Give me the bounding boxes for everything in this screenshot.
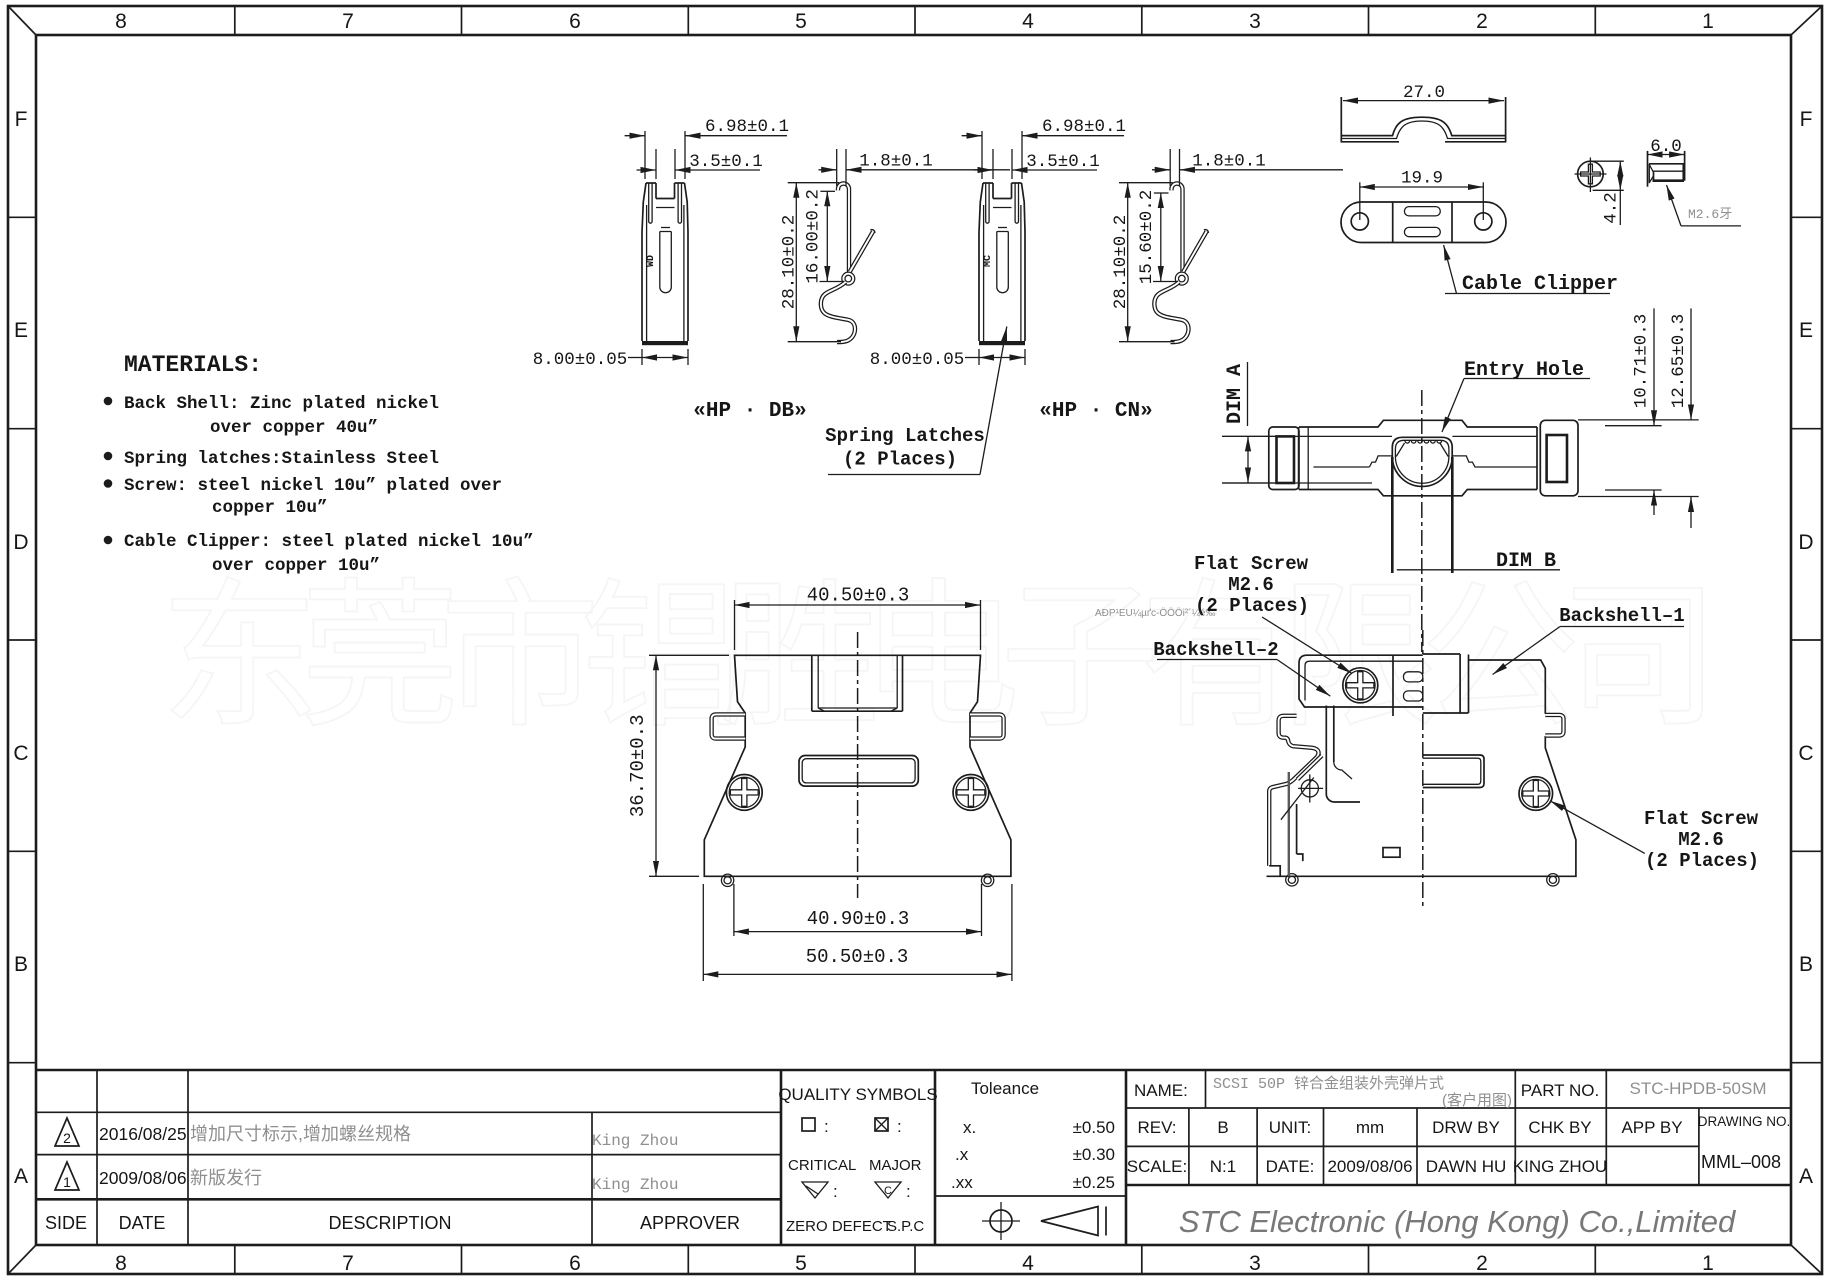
zone row ticks left/right [8, 217, 1822, 1062]
svg-text:mm: mm [1356, 1118, 1384, 1137]
svg-text:Flat Screw: Flat Screw [1644, 808, 1759, 830]
top view interior channel lines [1222, 435, 1392, 437]
svg-text:NAME:: NAME: [1134, 1081, 1188, 1100]
svg-text:增加尺寸标示,增加螺丝规格: 增加尺寸标示,增加螺丝规格 [190, 1124, 411, 1144]
svg-text:2: 2 [1476, 1252, 1488, 1275]
side view right half outline (backshell-1) [1267, 654, 1576, 876]
svg-text:19.9: 19.9 [1401, 169, 1443, 189]
svg-text:Screw: steel nickel 10u” p: Screw: steel nickel 10u” plated over [124, 476, 502, 496]
svg-text:Backshell–2: Backshell–2 [1153, 639, 1278, 661]
label Entry Hole with leader [1442, 359, 1590, 432]
revision triangle symbol 1 [55, 1162, 79, 1190]
svg-text:Back Shell: Zinc plated ni: Back Shell: Zinc plated nickel [124, 394, 439, 414]
dimension 15.60±0.2 (latch side 2) [1137, 190, 1177, 285]
side view middle tab [1423, 755, 1484, 788]
label Backshell-1 with leader [1493, 605, 1685, 675]
svg-text:STC-HPDB-50SM: STC-HPDB-50SM [1630, 1079, 1767, 1098]
dimension 6.0 (screw) [1648, 137, 1685, 157]
dimension 28.10±0.2 (latch side 1) [780, 183, 842, 342]
svg-text:D: D [13, 531, 28, 554]
spring latch side view 2 [1154, 184, 1208, 343]
svg-text:3.5±0.1: 3.5±0.1 [689, 152, 763, 172]
svg-text:UNIT:: UNIT: [1269, 1118, 1312, 1137]
svg-text:DIM A: DIM A [1224, 364, 1247, 424]
svg-text:A: A [1799, 1165, 1813, 1188]
svg-text:STC Electronic (Hong Kong) Co.: STC Electronic (Hong Kong) Co.,Limited [1179, 1204, 1737, 1239]
svg-text::: : [897, 1117, 902, 1136]
dimension 19.9 (clipper top view) [1360, 169, 1484, 221]
svg-text:M2.6: M2.6 [1228, 574, 1274, 596]
front view outline [704, 655, 1011, 876]
svg-text:3: 3 [1249, 1252, 1261, 1275]
svg-text:40.90±0.3: 40.90±0.3 [807, 908, 910, 930]
dimension 16.00±0.2 (latch side 1) [804, 189, 844, 284]
label Flat Screw M2.6 (2 Places) lower right with leader [1550, 801, 1759, 872]
svg-text:«HP · DB»: «HP · DB» [693, 400, 806, 423]
label Cable Clipper with leader [1444, 245, 1618, 296]
svg-text:新版发行: 新版发行 [190, 1168, 262, 1188]
front view right screw [953, 775, 989, 811]
svg-text:(2 Places): (2 Places) [1195, 595, 1309, 617]
entry hole inner slants [1396, 443, 1404, 457]
top view body bottom edge [1299, 490, 1537, 496]
svg-text:12.65±0.3: 12.65±0.3 [1669, 314, 1689, 409]
svg-text:16.00±0.2: 16.00±0.2 [804, 189, 824, 284]
svg-text:(2 Places): (2 Places) [1645, 850, 1759, 872]
svg-text:3.5±0.1: 3.5±0.1 [1026, 152, 1100, 172]
svg-text:6.98±0.1: 6.98±0.1 [705, 117, 789, 137]
svg-text:A: A [14, 1165, 28, 1188]
svg-text:DATE: DATE [119, 1213, 166, 1233]
dimension 4.2 (screw head height) [1593, 161, 1624, 225]
tolerance box [951, 1079, 1115, 1192]
side view big screw on block [1343, 668, 1378, 703]
svg-text:APPROVER: APPROVER [640, 1213, 740, 1233]
svg-text:APP BY: APP BY [1621, 1118, 1682, 1137]
svg-text:DAWN HU: DAWN HU [1426, 1157, 1507, 1176]
svg-text:8.00±0.05: 8.00±0.05 [870, 350, 965, 370]
watermark (faint) [160, 567, 1720, 746]
svg-text:over copper 40u”: over copper 40u” [210, 418, 378, 438]
flat screw top view (phillips head) [1575, 158, 1607, 193]
dimension 6.98±0.1 (latch 2) [962, 117, 1126, 179]
svg-text:1: 1 [63, 1174, 71, 1190]
dimension 3.5±0.1 (latch 1) [637, 149, 763, 179]
svg-text:ZERO DEFECT: ZERO DEFECT [786, 1218, 892, 1235]
dimension 1.8±0.1 (latch side 1) [819, 149, 1011, 186]
svg-text:2009/08/06: 2009/08/06 [99, 1168, 187, 1188]
top view right block [1540, 420, 1578, 496]
svg-text::: : [824, 1117, 829, 1136]
revision triangle symbol 2 [55, 1118, 79, 1146]
svg-text:±0.25: ±0.25 [1073, 1173, 1115, 1192]
svg-text:7: 7 [342, 1252, 354, 1275]
svg-text:Spring latches:Stainless Ste: Spring latches:Stainless Steel [124, 449, 439, 469]
top view right flange double lines [1536, 427, 1538, 490]
svg-text:«HP · CN»: «HP · CN» [1039, 400, 1152, 423]
label DIM A [1222, 362, 1280, 483]
svg-text:3: 3 [1249, 10, 1261, 33]
svg-text:6.0: 6.0 [1650, 137, 1682, 157]
svg-text:C: C [884, 1185, 892, 1197]
front view top cutout [812, 655, 903, 711]
flat screw side view [1648, 151, 1685, 187]
svg-text:M2.6牙: M2.6牙 [1688, 207, 1732, 222]
dimension 40.90±0.3 (front view) [734, 884, 982, 936]
MATERIALS text block [104, 352, 534, 576]
svg-text:40.50±0.3: 40.50±0.3 [807, 585, 910, 607]
svg-text:50.50±0.3: 50.50±0.3 [806, 946, 909, 968]
svg-text::: : [833, 1182, 838, 1201]
cable clipper profile view (arched strip) [1341, 97, 1505, 143]
svg-text:DATE:: DATE: [1266, 1157, 1315, 1176]
top view body top edge [1299, 420, 1537, 427]
zone column ticks top/bottom [235, 6, 1596, 1274]
svg-text:Backshell–1: Backshell–1 [1559, 605, 1684, 627]
svg-text:15.60±0.2: 15.60±0.2 [1137, 190, 1157, 285]
svg-text:DRAWING NO.: DRAWING NO. [1698, 1114, 1791, 1129]
rev / unit row [1127, 1114, 1790, 1176]
svg-text:Flat Screw: Flat Screw [1194, 553, 1309, 575]
svg-text:SCSI 50P 锌合金组装外壳弹片式: SCSI 50P 锌合金组装外壳弹片式 [1213, 1075, 1444, 1093]
dimension 27.0 (clipper) [1343, 83, 1504, 103]
dimension 8.00±0.05 (latch 1) [533, 349, 688, 370]
svg-text::: : [906, 1182, 911, 1201]
entry hole cup arcs [1392, 457, 1452, 487]
svg-text:KING ZHOU: KING ZHOU [1513, 1157, 1607, 1176]
svg-text:28.10±0.2: 28.10±0.2 [1111, 215, 1131, 310]
svg-text:copper 10u”: copper 10u” [212, 498, 328, 518]
side view upper block (cable clipper mount) [1299, 655, 1423, 716]
top view left block [1269, 427, 1299, 490]
dimension 12.65±0.3 (top view) [1578, 308, 1699, 528]
entry hole dome inner [1395, 440, 1449, 457]
svg-text:B: B [14, 953, 28, 976]
svg-text:.x: .x [955, 1145, 969, 1164]
svg-text:C: C [1798, 742, 1813, 765]
first-angle projection symbol [982, 1202, 1106, 1240]
svg-text:MAJOR: MAJOR [869, 1157, 922, 1174]
svg-text:±0.50: ±0.50 [1073, 1118, 1115, 1137]
spring latch side view 1 [821, 184, 875, 343]
svg-text:C: C [13, 742, 28, 765]
front view left latch hook [712, 714, 746, 738]
svg-text:CHK BY: CHK BY [1528, 1118, 1591, 1137]
svg-text:x.: x. [963, 1118, 976, 1137]
svg-text:N:1: N:1 [1210, 1157, 1236, 1176]
svg-text:2: 2 [1476, 10, 1488, 33]
svg-text:1.8±0.1: 1.8±0.1 [1192, 152, 1266, 172]
svg-text:2009/08/06: 2009/08/06 [1327, 1157, 1412, 1176]
svg-text:QUALITY SYMBOLS: QUALITY SYMBOLS [778, 1085, 937, 1104]
backshell side view (assembled) [1267, 630, 1576, 908]
svg-text:F: F [1800, 108, 1813, 131]
svg-text:DRW BY: DRW BY [1432, 1118, 1500, 1137]
dimension 3.5±0.1 (latch 2) [974, 149, 1100, 179]
svg-text:8: 8 [115, 10, 127, 33]
front view center line [857, 632, 859, 898]
svg-text:E: E [14, 319, 28, 342]
dimension 40.50±0.3 (front view) [735, 585, 981, 651]
svg-text:MML–008: MML–008 [1701, 1152, 1781, 1172]
entry hole dome outer [1392, 437, 1452, 457]
svg-text:4.2: 4.2 [1602, 192, 1622, 224]
side view right screw [1519, 777, 1553, 811]
svg-text:.xx: .xx [951, 1173, 973, 1192]
svg-text:Toleance: Toleance [971, 1079, 1039, 1098]
svg-text:36.70±0.3: 36.70±0.3 [627, 714, 649, 817]
svg-text:B: B [1217, 1118, 1228, 1137]
dimension 28.10±0.2 (latch side 2) [1111, 183, 1175, 342]
svg-text:over copper 10u”: over copper 10u” [212, 556, 380, 576]
svg-text:27.0: 27.0 [1403, 83, 1445, 103]
svg-text:Cable Clipper: Cable Clipper [1462, 273, 1618, 296]
backshell top view [1222, 390, 1578, 652]
svg-text:SIDE: SIDE [45, 1213, 87, 1233]
svg-text:DIM B: DIM B [1496, 550, 1556, 573]
svg-text:E: E [1799, 319, 1813, 342]
front view feet [721, 874, 993, 886]
top view left flange double lines [1298, 427, 1300, 490]
svg-text:REV:: REV: [1137, 1118, 1176, 1137]
backshell front view [704, 632, 1011, 898]
svg-text:MATERIALS:: MATERIALS: [124, 352, 262, 378]
side view right latch hook [1545, 715, 1563, 736]
cable clipper top view (stadium plate) [1341, 202, 1506, 243]
svg-text:S.P.C: S.P.C [887, 1218, 924, 1235]
dimension 10.71±0.3 (top view) [1605, 308, 1662, 515]
label M2.6 thread with leader [1667, 185, 1742, 226]
svg-text:2: 2 [63, 1130, 71, 1146]
label Flat Screw M2.6 (2 Places) upper with leader [1194, 553, 1352, 674]
svg-text:CRITICAL: CRITICAL [788, 1157, 856, 1174]
svg-text:PART NO.: PART NO. [1521, 1081, 1599, 1100]
svg-text:WD: WD [646, 255, 657, 267]
svg-text:10.71±0.3: 10.71±0.3 [1632, 314, 1652, 409]
front view right latch hook [970, 714, 1004, 738]
svg-text:1.8±0.1: 1.8±0.1 [859, 152, 933, 172]
svg-text:5: 5 [795, 10, 807, 33]
svg-text:8: 8 [115, 1252, 127, 1275]
DIM B extension verticals [1391, 457, 1394, 573]
svg-text:Cable Clipper: steel plated: Cable Clipper: steel plated nickel 10u” [124, 532, 534, 552]
dimension 1.8±0.1 (latch side 2) [1152, 149, 1343, 186]
svg-text:King Zhou: King Zhou [592, 1176, 678, 1194]
svg-text:SCALE:: SCALE: [1127, 1157, 1187, 1176]
label DIM B [1397, 550, 1560, 573]
svg-text:(客户用图): (客户用图) [1442, 1092, 1512, 1109]
front view left screw [726, 775, 762, 811]
dimension 6.98±0.1 (latch 1) [625, 117, 789, 179]
label Spring Latches (2 Places) with leader [825, 327, 1007, 475]
svg-text:Spring Latches: Spring Latches [825, 425, 985, 447]
side view small bottom rect [1383, 848, 1400, 858]
svg-text:1: 1 [1702, 10, 1714, 33]
front view center slot [799, 756, 918, 787]
label Backshell-2 with leader [1153, 639, 1330, 696]
entry hole serrations [1405, 441, 1442, 443]
svg-text:5: 5 [795, 1252, 807, 1275]
svg-text:M2.6: M2.6 [1678, 829, 1724, 851]
svg-text:2016/08/25: 2016/08/25 [99, 1124, 187, 1144]
svg-text:4: 4 [1022, 1252, 1034, 1275]
svg-text:6: 6 [569, 1252, 581, 1275]
svg-text:6.98±0.1: 6.98±0.1 [1042, 117, 1126, 137]
svg-text:DESCRIPTION: DESCRIPTION [328, 1213, 451, 1233]
svg-text:东莞市锠胜电子有限公司: 东莞市锠胜电子有限公司 [160, 567, 1720, 746]
svg-text:F: F [15, 108, 28, 131]
svg-text:King Zhou: King Zhou [592, 1132, 678, 1150]
dimension 8.00±0.05 (latch 2) [870, 349, 1025, 370]
svg-text:8.00±0.05: 8.00±0.05 [533, 350, 628, 370]
dimension 36.70±0.3 (front view) [627, 655, 729, 876]
svg-text:1: 1 [1702, 1252, 1714, 1275]
side view center line [1422, 630, 1424, 908]
spring latch front view 1 (HP-DB type) [642, 183, 688, 345]
center line (top view) [1421, 390, 1423, 652]
svg-text:B: B [1799, 953, 1813, 976]
svg-text:±0.30: ±0.30 [1073, 1145, 1115, 1164]
svg-text:4: 4 [1022, 10, 1034, 33]
header row texts [45, 1213, 740, 1233]
title block grid lines [36, 1070, 1791, 1245]
svg-text:MC: MC [983, 255, 994, 267]
quality symbols box [778, 1085, 937, 1235]
side view backshell-2 bent sheet profile [1269, 706, 1360, 877]
side view feet [1286, 874, 1559, 886]
svg-text:D: D [1798, 531, 1813, 554]
svg-text:7: 7 [342, 10, 354, 33]
svg-text:6: 6 [569, 10, 581, 33]
svg-text:(2 Places): (2 Places) [843, 449, 957, 471]
spring latch front view 2 (HP-CN type) [979, 183, 1025, 345]
dimension 50.50±0.3 (front view) [703, 884, 1012, 981]
name / part no cells [1134, 1075, 1766, 1109]
svg-text:28.10±0.2: 28.10±0.2 [780, 215, 800, 310]
